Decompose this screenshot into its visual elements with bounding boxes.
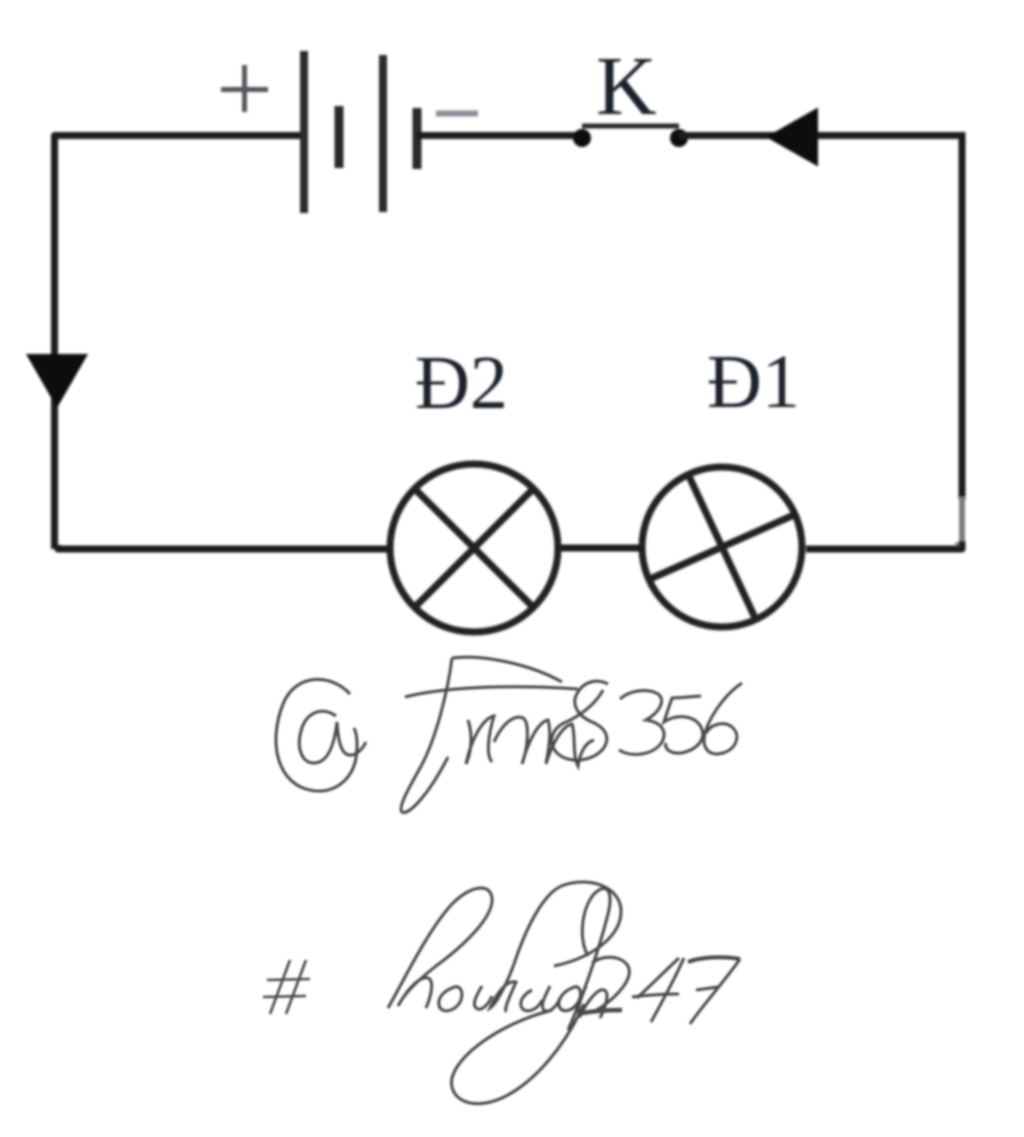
battery B2 short plate (-)	[413, 108, 422, 169]
battery B1 short plate	[335, 106, 344, 168]
svg-text:K: K	[596, 40, 657, 133]
wire battery to switch	[417, 132, 582, 139]
lamp D2 circle	[390, 464, 558, 632]
wire right vertical	[959, 132, 966, 500]
switch K bar	[582, 124, 679, 129]
svg-text:Đ2: Đ2	[415, 341, 508, 425]
arrow current top (pointing left)	[766, 108, 818, 167]
watermark line1 at-sign	[276, 679, 366, 791]
switch K node left	[573, 129, 591, 147]
lamp D1 circle	[642, 467, 802, 627]
lamp D1 cross (rotated 21deg)	[649, 475, 795, 620]
wire top-left horizontal	[55, 136, 302, 550]
wire switch to corner	[679, 132, 962, 139]
watermark line2 word hoidap247	[388, 882, 621, 1104]
wire between lamps	[558, 545, 642, 552]
lamp D2 cross	[415, 489, 534, 608]
battery B2 long plate	[379, 55, 387, 212]
plus label	[221, 65, 268, 112]
wire right vertical gray lower part	[955, 497, 962, 546]
arrow current left (pointing down)	[26, 354, 88, 408]
watermark line2 hash	[263, 960, 310, 1014]
wire bottom right	[806, 541, 962, 549]
svg-text:Đ1: Đ1	[707, 340, 800, 424]
watermark line2 digits 247	[578, 957, 740, 1024]
minus label	[436, 111, 478, 117]
wire bottom left	[58, 545, 390, 549]
switch K node right	[670, 129, 688, 147]
battery B1 long plate (+)	[300, 51, 308, 213]
watermark line1 word tram8356	[401, 657, 742, 812]
